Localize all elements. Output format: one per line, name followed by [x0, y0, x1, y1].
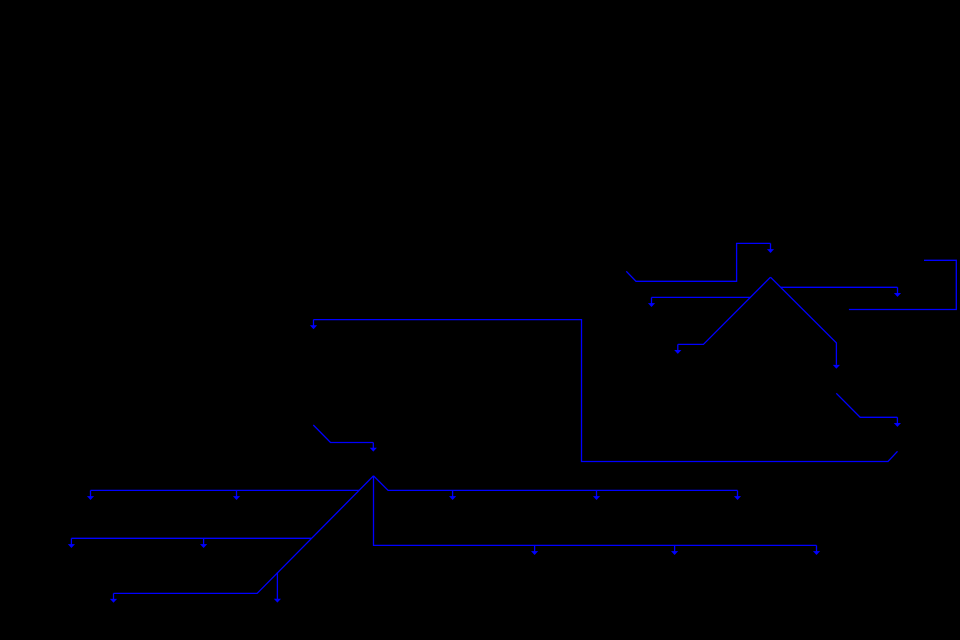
arrowhead child F3 [813, 545, 820, 555]
wire: edge B to child C2 (horizontal west) [652, 296, 751, 298]
wire: west bus y=490 from J diagonal [91, 489, 360, 491]
wire: long edge D to node E (around left via verticals) [314, 320, 898, 462]
arrowhead child G2 [593, 490, 600, 500]
arrowhead child I2 [68, 538, 75, 548]
arrowhead child G1 [449, 490, 456, 500]
arrowhead child K2 [274, 599, 281, 603]
wire: hanging drop from diagonal to child K2 [276, 572, 278, 599]
arrowhead child H1 [233, 490, 240, 500]
arrowhead into node E [310, 320, 317, 330]
wire: edge C3 to node D [836, 393, 897, 417]
wire: C-shaped edge around right margin [849, 260, 956, 309]
arrowhead into node C1 [674, 344, 681, 354]
wire: edge B to child C4 (horizontal east) [781, 286, 898, 288]
arrowhead child H2 [87, 490, 94, 500]
wire: edge B to child C3 (down-right diagonal) [771, 277, 837, 365]
wire: edge J east bus y=490 [374, 476, 738, 491]
wire: west bus y=538 from J diagonal [71, 537, 311, 539]
arrowhead into node C3 [833, 365, 840, 369]
wire: J down-left diagonal + bottom bus y=593 [114, 476, 374, 594]
arrowhead child K1 [110, 593, 117, 602]
arrowhead into node C4 [894, 287, 901, 297]
wire: edge B to child C1 (down-left diagonal) [678, 277, 771, 344]
arrowhead child I1 [200, 538, 207, 548]
arrowhead into node C2 [648, 297, 655, 307]
arrowhead into node B top [767, 243, 774, 253]
wire: edge J to children row y=545 (vertical trunk + east bus) [374, 476, 817, 546]
wire: edge E to junction node J [313, 425, 373, 443]
arrowhead child F2 [671, 545, 678, 555]
wire: edge from node A1 to node B (up-and-over into apex) [626, 243, 770, 281]
arrowhead into node D [894, 417, 901, 427]
arrowhead child G3 [734, 490, 741, 500]
arrowhead into junction J [370, 443, 377, 452]
arrowhead child F1 [531, 545, 538, 555]
